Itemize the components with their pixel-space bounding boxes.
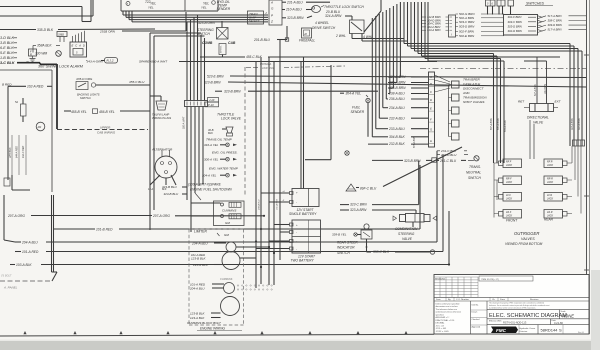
svg-text:JACK: JACK <box>547 181 554 184</box>
svg-text:204-A BLU: 204-A BLU <box>189 286 205 290</box>
svg-text:DRIVE SWITCH: DRIVE SWITCH <box>312 26 336 30</box>
connector J-10 labels <box>208 98 219 103</box>
battery two wires <box>274 224 290 226</box>
svg-text:B: B <box>430 82 432 86</box>
svg-text:SWITCH: SWITCH <box>337 251 350 255</box>
connector E-C-A-D box <box>70 42 87 57</box>
junction dot 449 <box>448 263 450 265</box>
svg-text:BLK: BLK <box>208 131 213 135</box>
wire elbow set mid <box>150 32 201 34</box>
wires up from connector box <box>72 36 74 42</box>
svg-text:4 WHEEL: 4 WHEEL <box>315 21 329 25</box>
svg-text:VALVES: VALVES <box>521 237 535 241</box>
svg-text:FUEL: FUEL <box>352 106 361 110</box>
svg-text:P-10: P-10 <box>208 103 214 107</box>
svg-text:VIEWED FROM BOTTOM: VIEWED FROM BOTTOM <box>505 242 543 246</box>
svg-text:Division: Division <box>520 331 528 333</box>
svg-text:507-A BRN: 507-A BRN <box>490 118 493 130</box>
border tick arrows <box>23 331 26 334</box>
sender circle 2 <box>345 151 349 155</box>
svg-text:.XXXX ± .0005: .XXXX ± .0005 <box>436 331 450 333</box>
wire heavy 323-C BLK feed <box>17 62 40 64</box>
svg-text:S: S <box>559 328 562 333</box>
svg-text:517-A BRN: 517-A BRN <box>548 28 563 32</box>
starter solenoid circle 2 <box>224 283 235 294</box>
scale box <box>559 310 561 319</box>
svg-text:435-D ORG: 435-D ORG <box>76 77 93 81</box>
svg-text:SELECT: SELECT <box>249 19 260 23</box>
svg-text:CUMMINS: CUMMINS <box>220 277 233 281</box>
svg-text:201-B BLU: 201-B BLU <box>253 38 271 42</box>
svg-text:SINGLE BATTERY: SINGLE BATTERY <box>289 212 317 216</box>
alarm module inner box <box>73 49 83 56</box>
wire 335-D BLK <box>0 29 36 31</box>
svg-text:3-C BLK: 3-C BLK <box>0 61 15 65</box>
svg-text:C: C <box>75 44 77 48</box>
svg-text:335-D BLK: 335-D BLK <box>37 28 54 32</box>
svg-text:E: E <box>430 107 432 111</box>
throttle lock valve solenoid <box>226 127 233 133</box>
wire bus center vertical 4 <box>273 62 275 286</box>
svg-text:STEERING: STEERING <box>398 232 415 236</box>
svg-text:SPARE=000-A WHT: SPARE=000-A WHT <box>139 60 168 64</box>
svg-text:358A BLK: 358A BLK <box>37 44 52 48</box>
svg-text:503-C BRN: 503-C BRN <box>459 20 475 24</box>
svg-text:Approved: Approved <box>472 326 481 329</box>
svg-text:455-C BLU: 455-C BLU <box>129 80 145 84</box>
svg-text:LIMITER: LIMITER <box>194 230 207 234</box>
svg-text:specified.: specified. <box>436 314 445 316</box>
ground triangle 89F-C BLU <box>346 184 356 191</box>
svg-text:502-A BRN: 502-A BRN <box>459 16 475 20</box>
gauge circle <box>36 122 45 131</box>
svg-text:VALVE: VALVE <box>533 120 544 124</box>
svg-text:ANGULAR ± 1°: ANGULAR ± 1° <box>436 316 450 319</box>
svg-text:SWITCHES: SWITCHES <box>526 1 545 5</box>
svg-text:SENDER: SENDER <box>217 7 231 11</box>
wire top bus 2 <box>0 15 93 17</box>
svg-text:Zone: Zone <box>500 299 506 301</box>
svg-text:3-21-80: 3-21-80 <box>554 321 563 325</box>
svg-text:339-B YEL: 339-B YEL <box>332 233 347 237</box>
svg-text:103-A BLK: 103-A BLK <box>16 263 32 267</box>
svg-text:REAR: REAR <box>544 217 554 221</box>
starter dashed box <box>188 229 190 325</box>
svg-text:323-B BLU: 323-B BLU <box>164 192 180 196</box>
svg-text:D: D <box>83 44 85 48</box>
junction dots center bus <box>268 246 270 248</box>
svg-text:Hydraulic Crane: Hydraulic Crane <box>520 327 536 330</box>
svg-text:204-A BLU: 204-A BLU <box>21 240 38 244</box>
svg-text:303-C BRN: 303-C BRN <box>508 20 523 24</box>
svg-text:THROTTLE LOCK SWITCH: THROTTLE LOCK SWITCH <box>324 5 365 9</box>
svg-text:CASE,AXLE: CASE,AXLE <box>463 82 481 86</box>
svg-text:503-D BRN: 503-D BRN <box>459 25 475 29</box>
svg-text:ASA BRN: ASA BRN <box>544 84 547 95</box>
svg-text:J2: J2 <box>304 32 307 36</box>
svg-text:A: A <box>270 0 273 4</box>
336B inline component <box>57 32 67 37</box>
svg-text:5-E BLK: 5-E BLK <box>0 51 14 55</box>
svg-text:GM: GM <box>225 221 230 225</box>
svg-text:DECIMAL: DECIMAL <box>436 322 446 325</box>
svg-text:333-C BLK: 333-C BLK <box>373 250 390 254</box>
svg-text:REAR STEER: REAR STEER <box>337 240 358 244</box>
svg-text:WHEEL: WHEEL <box>221 44 223 53</box>
cab panel box left <box>51 70 53 192</box>
svg-text:NEUTRAL: NEUTRAL <box>466 171 481 175</box>
svg-text:231-A BLU: 231-A BLU <box>286 0 303 4</box>
svg-text:300-A YEL: 300-A YEL <box>204 157 219 161</box>
svg-text:JACK: JACK <box>506 215 513 218</box>
svg-text:COMBINATION: COMBINATION <box>395 227 418 231</box>
wheel connector vertical <box>219 44 226 55</box>
svg-text:455-C BLK: 455-C BLK <box>246 55 262 59</box>
svg-text:517-A BRN: 517-A BRN <box>534 84 537 96</box>
svg-text:6-E BLK: 6-E BLK <box>0 46 14 50</box>
svg-text:308-C BRN: 308-C BRN <box>548 19 563 23</box>
svg-text:232-B BLK: 232-B BLK <box>388 142 406 146</box>
svg-text:102-C RED: 102-C RED <box>22 146 25 158</box>
svg-text:Unit No.: Unit No. <box>472 303 480 306</box>
transfer case connector pins <box>452 81 460 88</box>
svg-text:234-A BLU: 234-A BLU <box>388 106 405 110</box>
svg-text:JACK: JACK <box>506 181 513 184</box>
svg-text:5A: 5A <box>15 101 18 104</box>
svg-text:CUMMINS BLOCK BOLT: CUMMINS BLOCK BOLT <box>187 321 222 325</box>
svg-text:201-C BLU: 201-C BLU <box>439 159 457 163</box>
svg-text:SHIFT VALVES: SHIFT VALVES <box>463 100 485 104</box>
starter motor circle 2 <box>221 297 240 316</box>
wire bundle below sender box <box>122 12 124 16</box>
fuel sender circle <box>366 98 370 102</box>
connector small I <box>449 15 456 37</box>
svg-text:336B: 336B <box>58 33 64 36</box>
svg-text:517-A BRN: 517-A BRN <box>548 14 563 18</box>
svg-text:WHT/BLK: WHT/BLK <box>9 147 12 158</box>
svg-text:312-A BRN: 312-A BRN <box>578 118 581 130</box>
title block outer box <box>434 275 589 335</box>
svg-text:TWO BATTERY: TWO BATTERY <box>291 259 315 263</box>
svg-text:304-A YEL: 304-A YEL <box>202 173 217 177</box>
svg-text:302-F BRN: 302-F BRN <box>508 15 523 19</box>
svg-text:TRANS.: TRANS. <box>469 165 481 169</box>
svg-text:A. PANEL: A. PANEL <box>3 286 18 290</box>
svg-text:C: C <box>430 90 432 94</box>
gm shutdown coil <box>221 215 224 218</box>
svg-text:YEL: YEL <box>148 5 154 9</box>
wire vertical 154 <box>153 36 155 210</box>
4 wheel drive switch box <box>350 20 365 34</box>
svg-text:AND: AND <box>462 91 470 95</box>
svg-text:123-B BLK: 123-B BLK <box>191 256 207 260</box>
wire bus center vertical 2 <box>260 57 262 284</box>
battery single box <box>292 189 319 207</box>
svg-text:CAB WIRING: CAB WIRING <box>97 131 116 135</box>
sheet bottom border line <box>0 334 434 336</box>
svg-text:TAILFIN LAMP: TAILFIN LAMP <box>152 112 170 116</box>
wires join bottom left panel <box>11 175 13 190</box>
svg-text:123-A BLK: 123-A BLK <box>193 263 209 267</box>
svg-text:Checked: Checked <box>472 319 480 321</box>
svg-text:Z: Z <box>270 19 273 23</box>
svg-text:210-A BLU: 210-A BLU <box>285 8 302 12</box>
svg-text:204-A BLU: 204-A BLU <box>191 242 208 246</box>
svg-text:323-A ORN: 323-A ORN <box>198 21 215 25</box>
svg-text:020-A WHT: 020-A WHT <box>183 116 186 129</box>
revision header row <box>434 296 589 298</box>
svg-text:644-A RED: 644-A RED <box>16 146 19 158</box>
svg-text:313-A BRN: 313-A BRN <box>427 28 441 32</box>
fuse symbol <box>21 104 27 116</box>
wire 231-A BLU <box>282 1 286 3</box>
svg-text:OUTRIGGER: OUTRIGGER <box>514 231 539 236</box>
svg-text:502-F BRN: 502-F BRN <box>459 29 475 33</box>
svg-text:LWR ENG: LWR ENG <box>262 66 274 70</box>
svg-text:505-A BRN: 505-A BRN <box>497 118 500 130</box>
svg-text:523-E BRN: 523-E BRN <box>207 74 224 78</box>
relay FR box <box>29 49 37 56</box>
svg-text:722: 722 <box>145 0 151 4</box>
wire top bus 1 <box>0 6 82 8</box>
svg-text:123-A BLK: 123-A BLK <box>190 316 205 320</box>
outrigger riser wires <box>529 120 531 159</box>
svg-text:58RD144: 58RD144 <box>541 328 559 333</box>
svg-text:207-A ORG: 207-A ORG <box>7 214 25 218</box>
connector strip A-G-P-Z <box>269 0 282 25</box>
connector boxes top right <box>486 0 496 6</box>
sheet right border double line <box>586 0 588 334</box>
wire bus right top verticals <box>380 0 382 11</box>
fan wires to transfer connector <box>435 75 451 82</box>
svg-text:-: - <box>296 247 297 251</box>
svg-text:VALVE: VALVE <box>402 237 413 241</box>
svg-text:455-B YEL: 455-B YEL <box>71 110 87 114</box>
svg-text:understood unless otherwise: understood unless otherwise <box>436 311 462 314</box>
svg-text:456-B YEL: 456-B YEL <box>99 110 115 114</box>
svg-text:UPPER &: UPPER & <box>260 62 272 66</box>
svg-text:238-A BLU: 238-A BLU <box>388 92 405 96</box>
svg-text:AM: AM <box>37 126 42 129</box>
dashed boundary upper cab wiring left <box>57 129 148 131</box>
svg-text:WIRING PLUGS: WIRING PLUGS <box>152 116 171 120</box>
alternator circle <box>155 156 177 178</box>
outrigger top connector <box>573 140 585 146</box>
tran shift select box <box>248 11 264 24</box>
svg-text:The tolerance below are: The tolerance below are <box>436 308 458 311</box>
svg-text:ENG. WATER TEMP: ENG. WATER TEMP <box>209 166 239 170</box>
svg-text:A: A <box>429 75 432 79</box>
svg-text:FRONT: FRONT <box>506 218 518 222</box>
svg-text:TRANSMISSION: TRANSMISSION <box>463 96 487 100</box>
connector J-10 strip <box>185 101 208 107</box>
svg-text:G: G <box>430 127 432 131</box>
sender panel box <box>120 0 122 11</box>
svg-text:323-A BRN: 323-A BRN <box>350 208 367 212</box>
svg-text:CUMMINS: CUMMINS <box>222 208 236 212</box>
steering switch box <box>217 28 229 40</box>
wire 323-B BRN from connector <box>282 17 286 19</box>
svg-text:309-D BRN: 309-D BRN <box>548 23 563 27</box>
svg-text:207-A ORG: 207-A ORG <box>152 214 170 218</box>
svg-text:ITEM 51478(+-17): ITEM 51478(+-17) <box>481 279 499 281</box>
revision table grid <box>434 276 478 278</box>
throttle lock switch circle <box>313 8 315 10</box>
svg-text:.XXX ± .005: .XXX ± .005 <box>436 328 448 330</box>
svg-text:BACKING LIGHTS: BACKING LIGHTS <box>77 93 100 97</box>
svg-text:233-A BLU: 233-A BLU <box>388 127 405 131</box>
svg-text:SWITCH: SWITCH <box>468 176 481 180</box>
svg-text:SWITCH: SWITCH <box>80 96 91 100</box>
dashed boundary vertical center <box>244 67 246 196</box>
svg-text:R,J,2: R,J,2 <box>107 59 114 63</box>
wire 210-A BLU <box>282 9 285 11</box>
starter motor circle <box>222 252 240 270</box>
trans neutral switch circle <box>474 156 479 161</box>
svg-text:E: E <box>72 44 74 48</box>
svg-text:50T-A BRN: 50T-A BRN <box>413 136 416 148</box>
svg-text:Revision: Revision <box>530 299 539 301</box>
alternator top stubs <box>161 150 163 157</box>
svg-text:JACK: JACK <box>547 198 554 201</box>
selector switch box right <box>504 15 538 36</box>
svg-text:1-B BLK: 1-B BLK <box>0 56 14 60</box>
sender symbol left <box>126 2 130 6</box>
svg-text:Date: Date <box>436 298 441 301</box>
fmc logo <box>491 327 518 334</box>
bottom scan gray band <box>0 340 600 342</box>
svg-text:12-A: 12-A <box>148 188 153 191</box>
connector strip A-H <box>429 72 435 147</box>
sender symbol right <box>212 1 216 5</box>
fuel sender drop wire <box>367 103 369 137</box>
svg-text:89F-C BLU: 89F-C BLU <box>360 186 377 190</box>
svg-text:CAB: CAB <box>228 41 236 45</box>
svg-text:LOCK VALVE: LOCK VALVE <box>221 117 242 121</box>
svg-text:502-E BRN: 502-E BRN <box>459 34 475 38</box>
svg-text:JACK: JACK <box>547 164 554 167</box>
svg-text:NONE: NONE <box>562 314 574 319</box>
wire bundle drop to J-10 <box>186 22 188 101</box>
wire diag from 4wd switch <box>364 11 381 32</box>
svg-text:304-B BLK: 304-B BLK <box>389 135 406 139</box>
svg-text:504-A BRN: 504-A BRN <box>504 120 507 132</box>
svg-text:324-A BRN: 324-A BRN <box>325 14 342 18</box>
border zone tick right <box>584 195 589 197</box>
svg-text:.XX ± .03: .XX ± .03 <box>436 325 445 327</box>
battery two box <box>292 220 321 253</box>
rear steer indicator switch <box>364 224 369 229</box>
svg-text:323-C BRN: 323-C BRN <box>350 203 367 207</box>
part number box <box>537 325 539 334</box>
svg-text:H: H <box>430 139 432 143</box>
svg-text:123-B BLK: 123-B BLK <box>190 311 206 315</box>
svg-text:523-B BRN: 523-B BRN <box>204 80 221 84</box>
svg-text:323-B BLU: 323-B BLU <box>162 185 178 189</box>
svg-text:-: - <box>296 201 297 205</box>
svg-text:INDICATOR: INDICATOR <box>337 246 355 250</box>
wire bus center vertical 5 <box>279 40 281 260</box>
svg-text:C.O. Number: C.O. Number <box>456 298 469 301</box>
svg-text:232-A BLU: 232-A BLU <box>388 116 405 120</box>
svg-text:D: D <box>430 98 432 102</box>
svg-text:313-A BRN: 313-A BRN <box>571 118 574 130</box>
svg-text:3-D BLK: 3-D BLK <box>0 36 14 40</box>
svg-text:236-A BLU: 236-A BLU <box>388 97 405 101</box>
svg-text:(300-A WHT-X)SPARE: (300-A WHT-X)SPARE <box>188 182 222 186</box>
svg-text:Effective With:: Effective With: <box>489 319 502 322</box>
svg-text:REVISIONS: REVISIONS <box>435 279 446 281</box>
wires into shutdown box <box>191 202 221 204</box>
svg-text:FRACTIONAL ± 1/16: FRACTIONAL ± 1/16 <box>436 319 456 322</box>
wires from top connectors down <box>487 6 489 15</box>
svg-text:101-A RED: 101-A RED <box>276 199 279 210</box>
svg-text:3-B BLK: 3-B BLK <box>0 41 14 45</box>
svg-text:RSTV-001-ADD-113: RSTV-001-ADD-113 <box>503 321 527 325</box>
svg-text:251B ORN: 251B ORN <box>99 29 116 33</box>
svg-text:R: R <box>30 53 32 57</box>
junction dot rear steer <box>366 246 368 248</box>
svg-text:dimensions are in inches.: dimensions are in inches. <box>436 306 459 308</box>
svg-text:-: - <box>296 231 297 235</box>
svg-text:323-B BRN: 323-B BRN <box>287 16 304 20</box>
svg-text:323-B BRN: 323-B BRN <box>224 90 241 94</box>
outrigger wires right <box>571 146 573 163</box>
wire bus center vertical 3 <box>268 57 270 285</box>
wire stubs from 4wd switch <box>351 34 353 39</box>
staircase verticals to top <box>399 2 401 77</box>
svg-text:316-A YEL: 316-A YEL <box>204 143 219 147</box>
svg-text:DISCONNECT: DISCONNECT <box>463 87 485 91</box>
svg-text:ENGINE FUEL SHUTDOWN: ENGINE FUEL SHUTDOWN <box>190 188 232 192</box>
nested corner wire bundle right <box>403 2 405 44</box>
starter stub wires to bus <box>236 246 269 248</box>
ground below FR <box>32 56 34 59</box>
svg-text:TRANSFER: TRANSFER <box>463 78 480 82</box>
svg-text:304-A YEL: 304-A YEL <box>346 92 362 96</box>
tail lamp plug symbol <box>156 101 167 110</box>
svg-text:JACK: JACK <box>506 198 513 201</box>
svg-text:YEL: YEL <box>201 5 207 9</box>
directional valve symbol <box>530 104 536 112</box>
backing light switch <box>76 82 88 90</box>
svg-text:(?) BOLT: (?) BOLT <box>1 274 12 278</box>
outrigger valve block <box>503 159 522 168</box>
combination steering valve symbol <box>400 215 406 222</box>
item box <box>479 276 533 281</box>
outrigger wires left <box>493 163 495 218</box>
svg-text:J-10: J-10 <box>209 98 215 102</box>
svg-text:GM: GM <box>224 233 229 237</box>
svg-text:101-A RED: 101-A RED <box>22 250 39 254</box>
svg-text:TRANS.OIL TEMP: TRANS.OIL TEMP <box>206 137 233 141</box>
dashed boundary lower panel <box>0 280 52 282</box>
svg-text:ENGINE WIRING: ENGINE WIRING <box>200 327 225 331</box>
svg-text:101-B RED: 101-B RED <box>96 227 113 231</box>
svg-text:UPPER: UPPER <box>100 125 111 129</box>
svg-text:343-A-ORN: 343-A-ORN <box>87 60 104 64</box>
svg-text:ELEC. SCHEMATIC DIAGRAM: ELEC. SCHEMATIC DIAGRAM <box>489 313 567 319</box>
freefall connector J2 <box>302 28 312 38</box>
long verticals to battery <box>300 62 302 189</box>
cab panel left vertical double <box>51 195 53 272</box>
svg-text:SHIF: SHIF <box>249 15 257 19</box>
buzzer circle <box>56 51 62 57</box>
left edge vertical <box>3 195 5 240</box>
svg-text:102-A RED: 102-A RED <box>27 84 44 88</box>
svg-text:Drawn: Drawn <box>472 312 478 314</box>
wires below J-10 <box>186 107 188 201</box>
